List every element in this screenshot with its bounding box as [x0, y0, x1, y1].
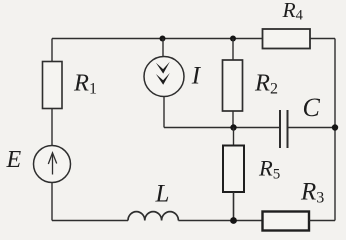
bottom wire left: [52, 220, 128, 222]
wire mid node to R5: [233, 128, 235, 146]
wire I source down: [163, 97, 165, 128]
svg-text:L: L: [155, 181, 170, 208]
inductor L: [128, 212, 178, 221]
capacitor C: [280, 110, 335, 148]
right wire vertical: [334, 39, 336, 221]
bottom wire right: [309, 220, 335, 222]
wire top to R2: [232, 39, 234, 61]
source E: [34, 146, 71, 183]
wire left vertical upper: [51, 39, 53, 62]
resistor R5: [223, 146, 244, 193]
resistor R2: [223, 60, 243, 111]
node mid: [230, 124, 236, 130]
wire R1 to E: [51, 109, 53, 146]
svg-text:E: E: [6, 147, 22, 173]
middle wire: [164, 127, 280, 129]
wire R2 to mid node: [232, 111, 234, 128]
node right: [332, 124, 338, 130]
node top I: [160, 36, 166, 42]
wire R5 to bottom node: [233, 192, 235, 221]
wire R4 right: [310, 38, 335, 40]
wire E to bottom: [51, 183, 53, 221]
wire top to I source: [162, 39, 164, 58]
current source I: [144, 57, 184, 97]
resistor R1: [43, 62, 63, 109]
resistor R4: [263, 29, 311, 49]
top wire: [52, 38, 263, 40]
bottom wire middle: [178, 220, 262, 222]
node bottom: [230, 217, 237, 224]
svg-text:C: C: [303, 93, 321, 122]
node top R2: [230, 36, 236, 42]
resistor R3: [263, 212, 310, 231]
